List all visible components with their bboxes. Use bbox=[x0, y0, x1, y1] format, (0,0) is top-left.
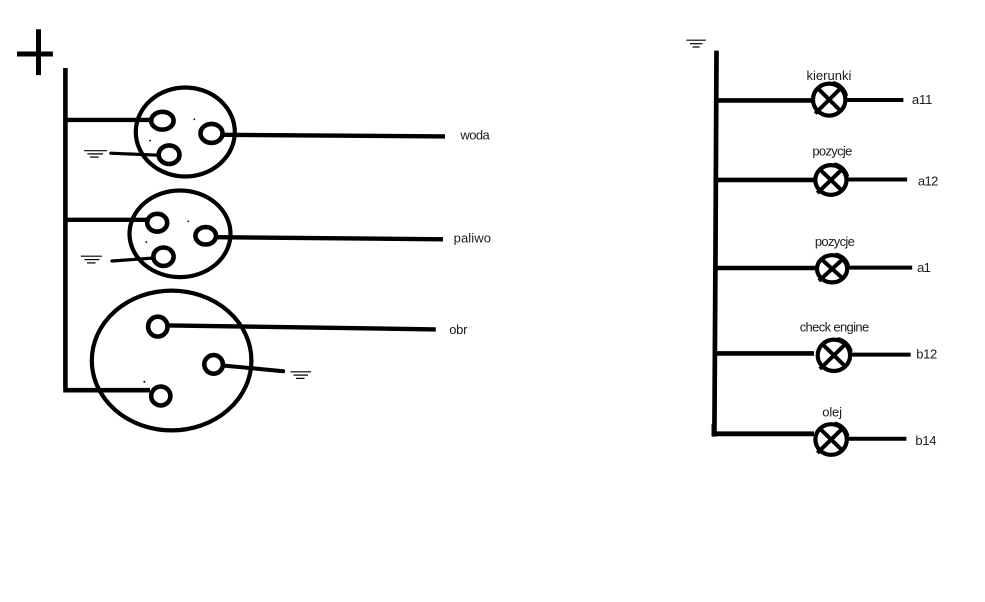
svg-text:b14: b14 bbox=[915, 433, 936, 448]
svg-text:b12: b12 bbox=[916, 347, 937, 362]
svg-text:a12: a12 bbox=[918, 173, 938, 188]
svg-text:obr: obr bbox=[449, 322, 468, 337]
svg-text:a1: a1 bbox=[917, 260, 931, 275]
svg-text:kierunki: kierunki bbox=[807, 68, 852, 83]
svg-text:check engine: check engine bbox=[800, 319, 870, 334]
svg-text:pozycje: pozycje bbox=[812, 144, 852, 159]
svg-text:woda: woda bbox=[459, 127, 490, 142]
svg-text:olej: olej bbox=[822, 405, 842, 420]
svg-text:paliwo: paliwo bbox=[454, 231, 491, 246]
svg-text:a11: a11 bbox=[912, 92, 932, 107]
svg-text:pozycje: pozycje bbox=[815, 234, 855, 249]
